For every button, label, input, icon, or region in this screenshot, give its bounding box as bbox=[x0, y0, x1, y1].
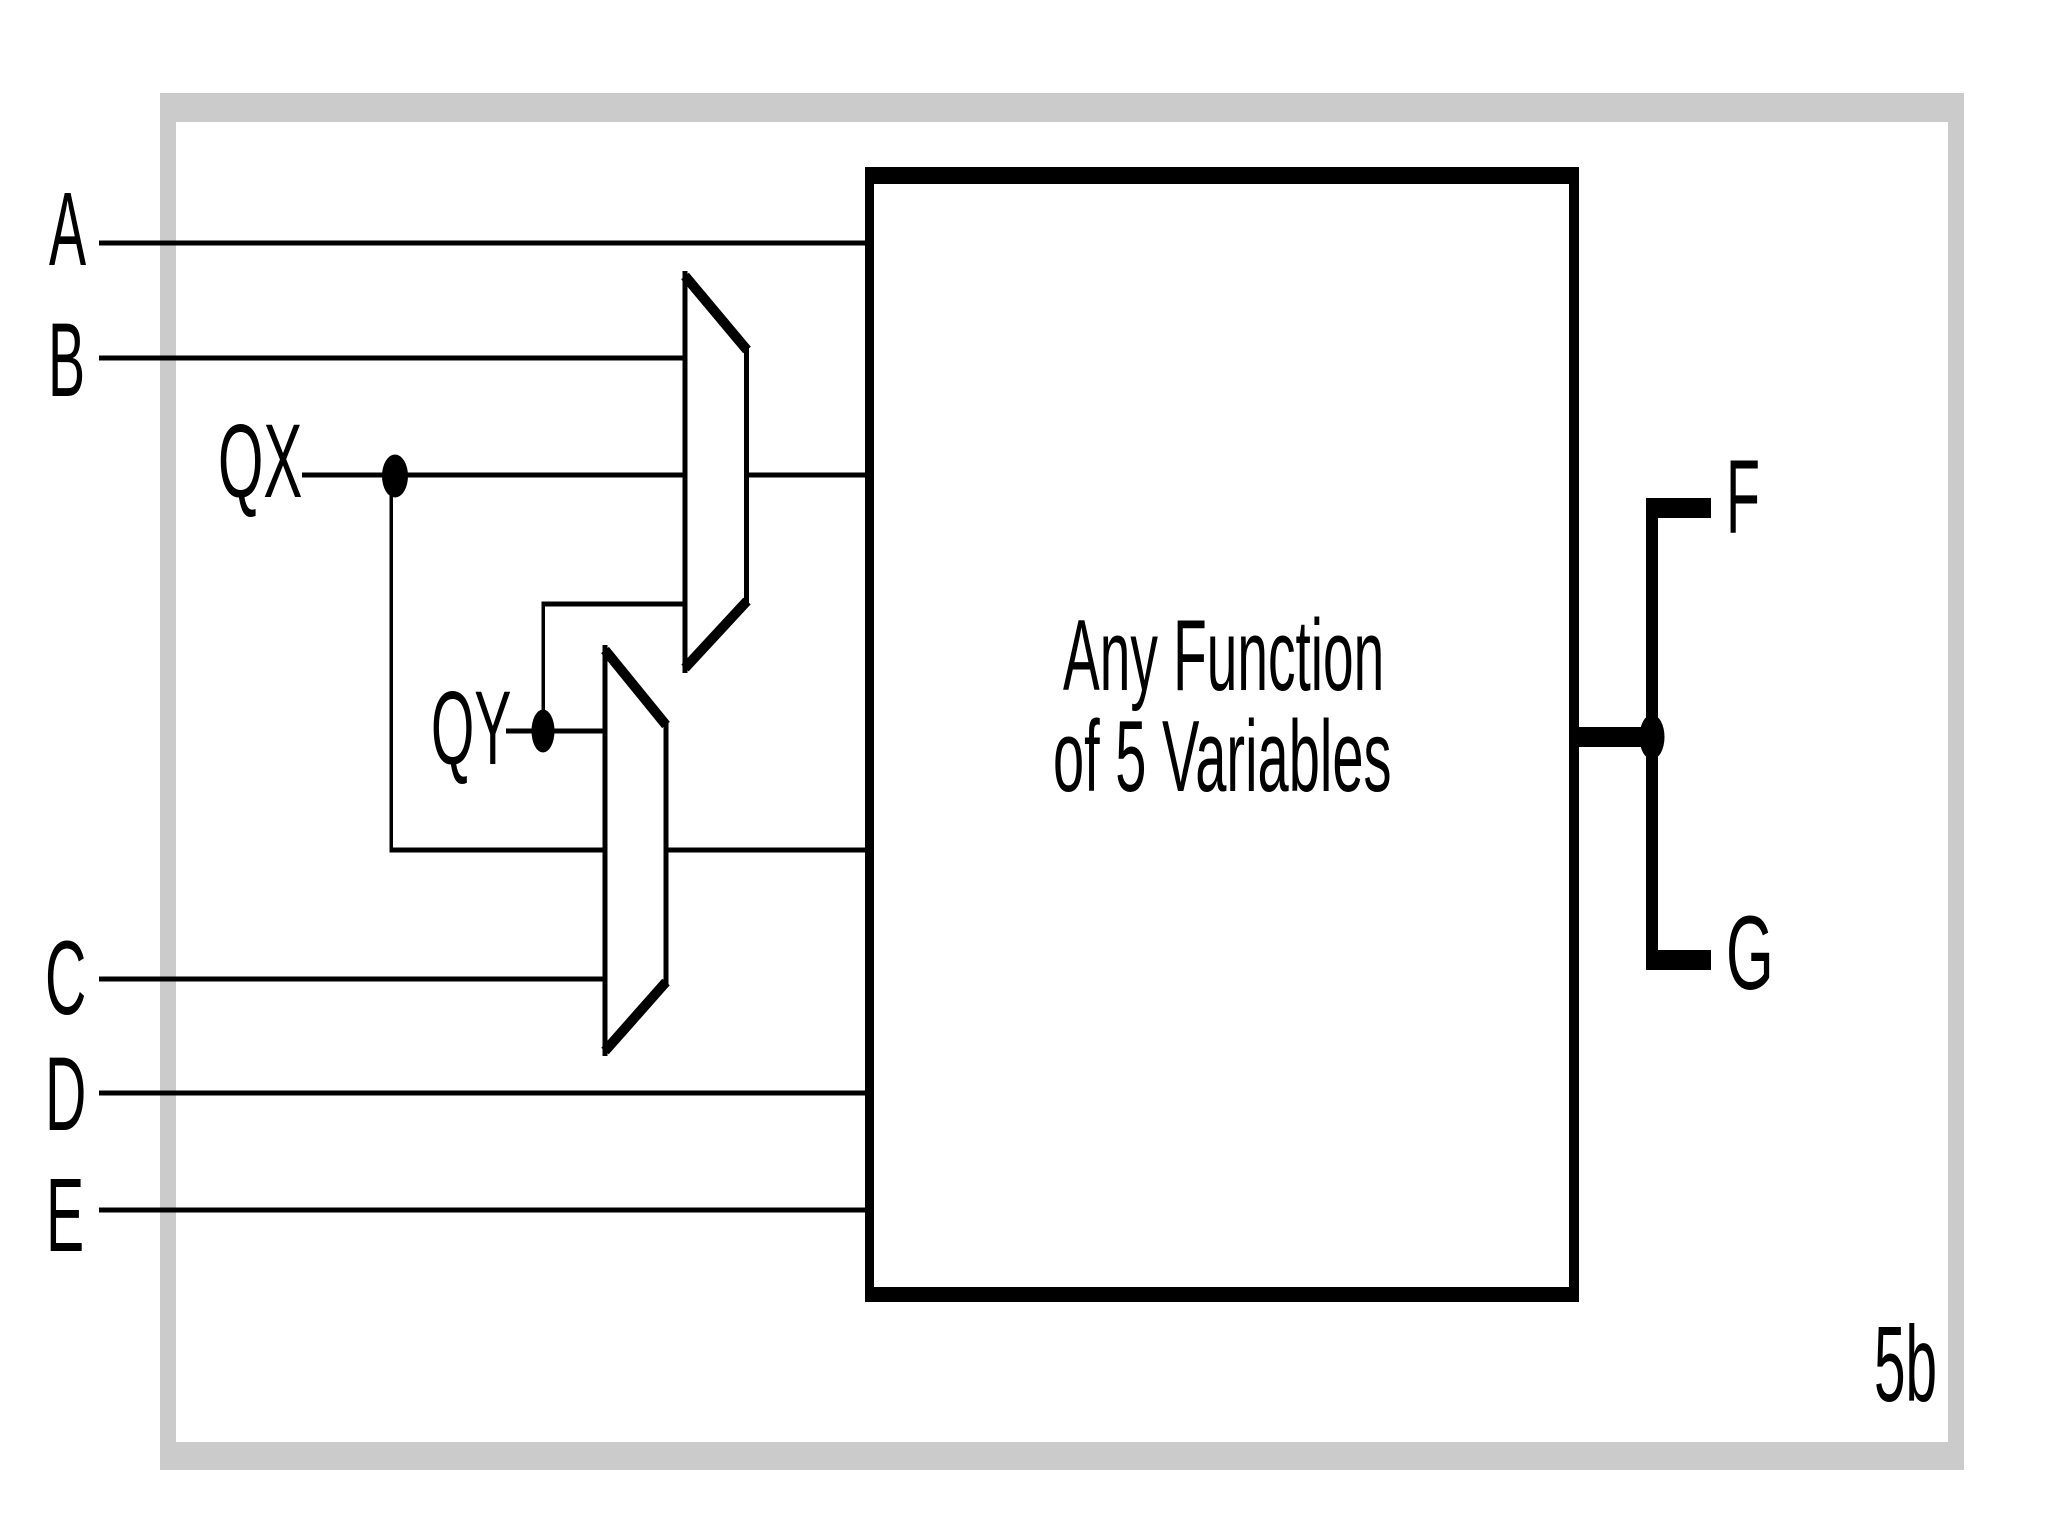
wire QY to mux1 bbox=[542, 602, 688, 607]
outer gray frame right bar bbox=[1948, 93, 1964, 1470]
mux trapezoid 2 bottom slant bbox=[605, 982, 666, 1051]
mux trapezoid 1 right edge bbox=[744, 345, 749, 605]
svg-text:F: F bbox=[1726, 438, 1760, 555]
mux trapezoid 1 bottom slant bbox=[685, 601, 747, 668]
output stub G bbox=[1646, 950, 1711, 970]
mux trapezoid 2 left edge bbox=[603, 645, 608, 1056]
svg-text:Any Function: Any Function bbox=[1063, 599, 1384, 712]
wire QY horizontal bbox=[506, 729, 606, 734]
svg-text:of 5 Variables: of 5 Variables bbox=[1053, 701, 1392, 814]
wire QX to mux2 and mux2 output bbox=[390, 848, 870, 853]
outer gray frame top bar bbox=[160, 93, 1964, 122]
svg-text:B: B bbox=[48, 301, 85, 418]
wire D bbox=[99, 1091, 870, 1096]
svg-text:A: A bbox=[49, 170, 86, 287]
svg-text:D: D bbox=[45, 1034, 86, 1152]
mux trapezoid 1 left edge bbox=[683, 271, 688, 673]
junction dot F/G bbox=[1640, 715, 1665, 760]
function box body bbox=[865, 167, 1579, 1302]
svg-text:C: C bbox=[45, 918, 86, 1036]
wire QX horizontal bbox=[302, 473, 870, 478]
mux trapezoid 1 top slant bbox=[685, 276, 747, 350]
mux trapezoid 2 body bbox=[605, 647, 666, 1054]
svg-text:G: G bbox=[1726, 895, 1774, 1012]
mux trapezoid 2 top slant bbox=[605, 650, 666, 725]
output stub from box bbox=[1579, 727, 1652, 747]
wire C bbox=[99, 977, 606, 982]
wire QX vertical drop bbox=[390, 475, 394, 852]
wire A bbox=[99, 241, 870, 246]
svg-text:QY: QY bbox=[431, 669, 511, 786]
outer gray frame bottom bar bbox=[160, 1442, 1964, 1470]
wire QY vertical riser bbox=[542, 603, 546, 731]
junction dot on QX bbox=[382, 455, 408, 498]
function box bottom border bbox=[865, 1287, 1579, 1302]
mux trapezoid 1 body bbox=[685, 273, 747, 671]
junction dot on QY bbox=[532, 710, 555, 753]
svg-text:5b: 5b bbox=[1874, 1305, 1937, 1425]
function box top border bbox=[865, 167, 1579, 184]
wire B bbox=[99, 356, 687, 361]
output vertical bus bbox=[1646, 498, 1658, 970]
outer gray frame left bar bbox=[160, 93, 176, 1470]
svg-text:QX: QX bbox=[218, 403, 302, 520]
output stub F bbox=[1646, 498, 1711, 518]
function box left border bbox=[865, 167, 874, 1302]
mux trapezoid 2 right edge bbox=[664, 720, 669, 985]
svg-text:E: E bbox=[46, 1155, 84, 1273]
wire E bbox=[99, 1208, 870, 1213]
function box right border bbox=[1569, 167, 1579, 1302]
